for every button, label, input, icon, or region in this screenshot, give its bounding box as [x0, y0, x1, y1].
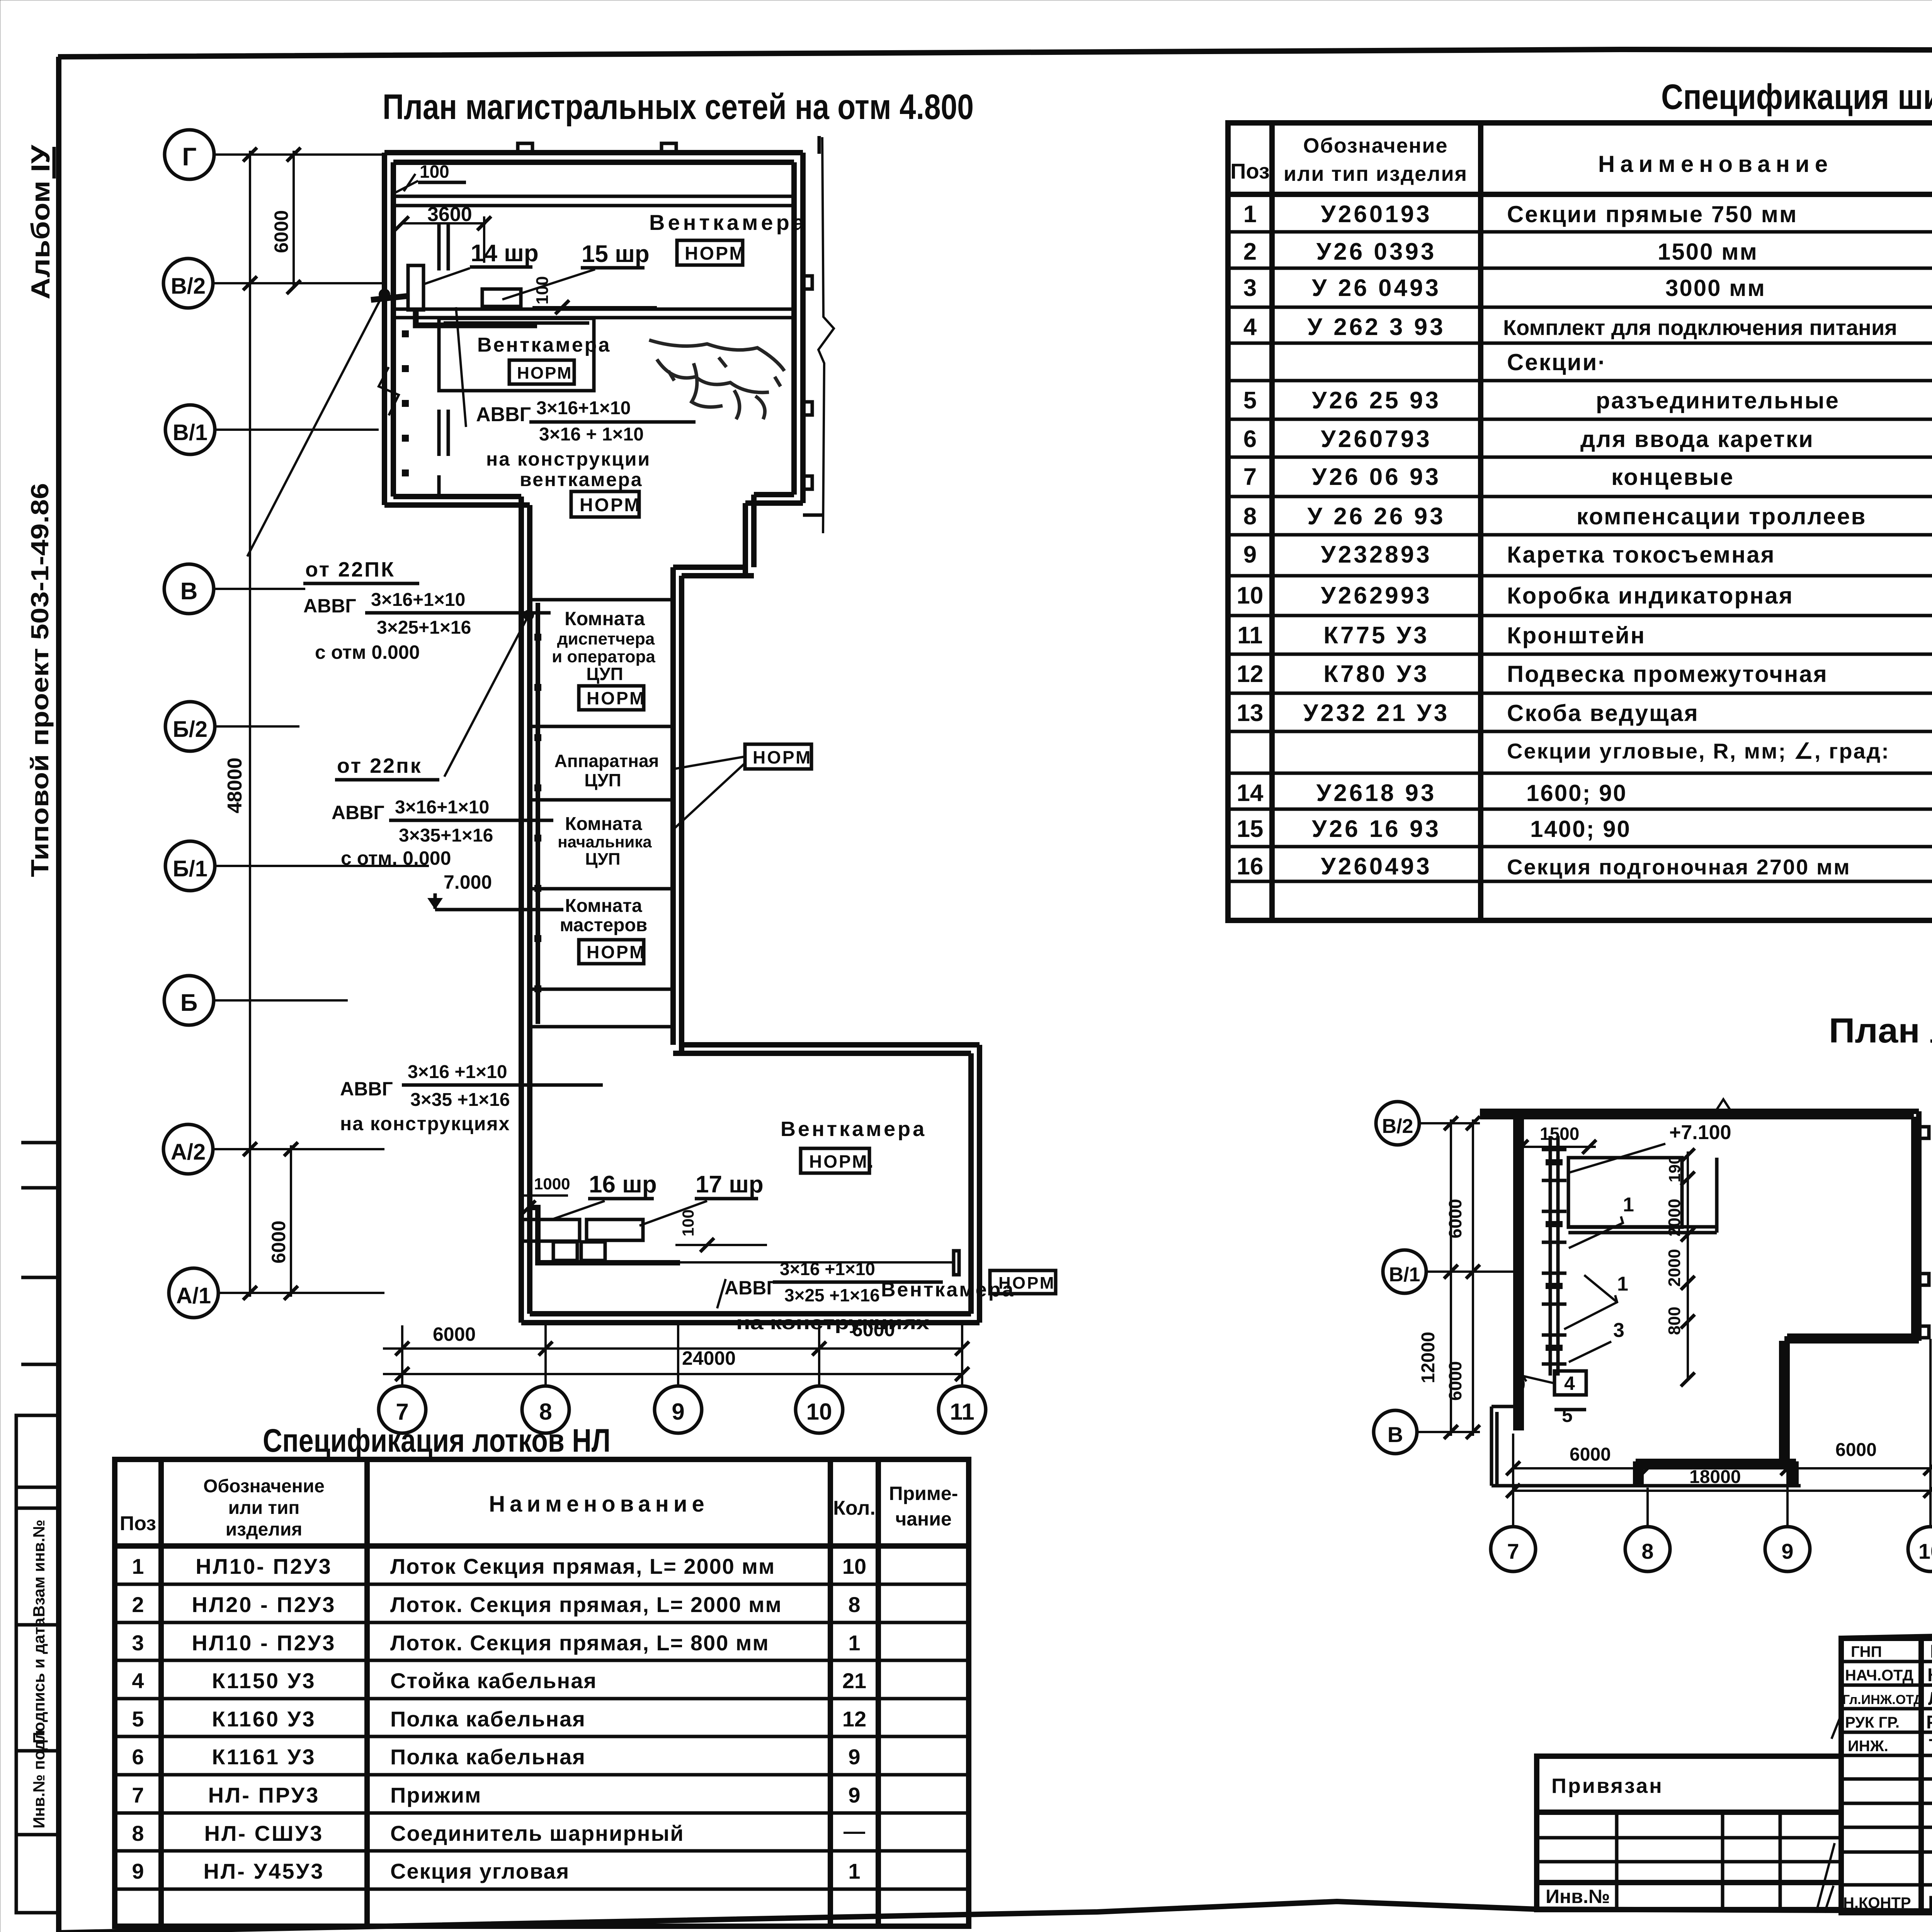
svg-text:НОРМ: НОРМ — [587, 942, 646, 962]
sheet frame top border — [58, 49, 1932, 57]
bottom block walls — [521, 1045, 980, 1323]
svg-text:2: 2 — [1243, 238, 1257, 265]
small plan A: vertical dim 6000/6000 — [1472, 1119, 1474, 1436]
small plan A: axis stems — [1513, 1339, 1930, 1526]
partition stubs below band — [439, 224, 448, 497]
svg-text:Секции·: Секции· — [1507, 349, 1607, 375]
svg-text:План магистральных сетей на: План магистральных сетей на отм 4.800 — [383, 87, 974, 127]
bottom dim upper line — [383, 1347, 962, 1350]
grid circle 9 — [655, 1386, 702, 1433]
svg-text:13: 13 — [1237, 700, 1264, 726]
svg-text:У26 25 93: У26 25 93 — [1312, 387, 1441, 414]
grid circle А/1 — [169, 1268, 218, 1318]
svg-text:У26 06 93: У26 06 93 — [1312, 464, 1441, 490]
svg-text:14: 14 — [1237, 780, 1264, 806]
svg-text:РУК ГР.: РУК ГР. — [1845, 1714, 1900, 1731]
svg-text:Комната: Комната — [565, 814, 642, 834]
small plan A: cable tray vertical ladder — [1550, 1136, 1558, 1376]
svg-text:1: 1 — [1617, 1273, 1628, 1295]
small plan A: grid circle 10 — [1908, 1527, 1932, 1571]
room label Комната начальника ЦУП — [558, 814, 652, 869]
small plan A: grid circle В/2 — [1376, 1102, 1419, 1145]
svg-text:Поз: Поз — [1230, 159, 1270, 183]
wall break mark left — [379, 367, 399, 415]
svg-text:3×16 +1×10: 3×16 +1×10 — [780, 1259, 875, 1279]
svg-text:разъединительные: разъединительные — [1596, 388, 1840, 413]
svg-text:5: 5 — [132, 1707, 144, 1731]
svg-text:100: 100 — [420, 162, 449, 182]
svg-text:48000: 48000 — [224, 757, 246, 813]
svg-text:1600; 90: 1600; 90 — [1526, 780, 1627, 806]
svg-text:Венткамера: Венткамера — [781, 1117, 927, 1141]
svg-text:6000: 6000 — [268, 1221, 289, 1264]
svg-text:11: 11 — [1237, 622, 1263, 649]
svg-text:Приме-: Приме- — [889, 1483, 958, 1504]
svg-text:21: 21 — [842, 1668, 866, 1693]
svg-text:—: — — [844, 1819, 865, 1843]
riser junction dots — [534, 634, 541, 992]
leader 15шр — [502, 269, 595, 299]
svg-text:АВВГ: АВВГ — [476, 403, 531, 426]
svg-text:НАЧ.ОТД: НАЧ.ОТД — [1845, 1667, 1913, 1684]
svg-text:9: 9 — [672, 1399, 684, 1425]
svg-text:Б/1: Б/1 — [173, 856, 207, 881]
svg-text:ИНЖ.: ИНЖ. — [1848, 1738, 1888, 1755]
grid circle 11 — [939, 1386, 986, 1433]
cable junction dots left wall — [402, 330, 409, 476]
label block АВВГ на конструкциях (left mid) — [340, 1062, 603, 1134]
svg-text:12000: 12000 — [1418, 1332, 1439, 1383]
svg-text:Обозначение: Обозначение — [1303, 134, 1448, 157]
svg-text:11: 11 — [950, 1399, 974, 1425]
svg-text:У2618 93: У2618 93 — [1316, 780, 1437, 806]
НОРМ box bottom right — [990, 1270, 1056, 1294]
grid circle 7 — [379, 1386, 426, 1433]
svg-text:8: 8 — [1641, 1539, 1653, 1563]
svg-text:2000: 2000 — [1665, 1249, 1684, 1287]
svg-text:3×25 +1×16: 3×25 +1×16 — [784, 1285, 880, 1305]
svg-text:7: 7 — [1243, 464, 1257, 490]
lotki table names — [390, 1554, 782, 1883]
svg-text:Подвеска промежуточная: Подвеска промежуточная — [1507, 661, 1828, 687]
svg-text:Секции прямые 750 мм: Секции прямые 750 мм — [1507, 201, 1798, 227]
svg-text:АВВГ: АВВГ — [303, 595, 356, 617]
svg-text:К1160 У3: К1160 У3 — [212, 1707, 316, 1731]
shkaf 15 symbol — [482, 289, 521, 306]
svg-text:Ланкин: Ланкин — [1928, 1689, 1932, 1709]
svg-text:190: 190 — [1665, 1155, 1684, 1182]
svg-text:7: 7 — [132, 1783, 144, 1807]
small plan A: vertical dim chain — [1687, 1151, 1689, 1379]
small plan A: grid circle В — [1374, 1410, 1417, 1454]
svg-text:Юрин: Юрин — [1930, 1641, 1932, 1662]
top block interior band wall — [393, 195, 794, 198]
spec table pos+code columns — [1237, 201, 1450, 880]
svg-text:Кол.: Кол. — [833, 1497, 876, 1519]
grid circle 10 — [796, 1386, 843, 1433]
svg-text:6000: 6000 — [852, 1319, 895, 1340]
svg-text:3×16+1×10: 3×16+1×10 — [371, 590, 465, 610]
svg-text:Лоток. Секция прямая, L= 200: Лоток. Секция прямая, L= 2000 мм — [390, 1592, 782, 1617]
svg-text:7.000: 7.000 — [444, 871, 492, 893]
long leader from от22ПК to wall — [247, 297, 382, 556]
svg-text:Спецификация шинопроводов: Спецификация шинопроводов ШТА 75 — [1661, 77, 1932, 117]
svg-text:2: 2 — [132, 1592, 144, 1617]
room label Аппаратная ЦУП — [554, 751, 659, 790]
margin stamp boxes column — [16, 1415, 58, 1913]
svg-text:24000: 24000 — [682, 1347, 736, 1369]
svg-text:6000: 6000 — [1570, 1444, 1611, 1465]
leader 14шр — [424, 268, 470, 284]
svg-text:Полка кабельная: Полка кабельная — [390, 1745, 586, 1769]
svg-text:венткамера: венткамера — [520, 469, 643, 490]
svg-text:Обозначение: Обозначение — [203, 1476, 325, 1497]
svg-text:В: В — [1388, 1422, 1403, 1447]
svg-text:Подпись и дата: Подпись и дата — [30, 1617, 48, 1743]
shkaf 17 symbol — [587, 1219, 643, 1240]
grid circle А/2 — [163, 1124, 213, 1174]
svg-text:6000: 6000 — [1445, 1361, 1465, 1401]
svg-text:4: 4 — [132, 1668, 144, 1693]
svg-text:НЛ- У45У3: НЛ- У45У3 — [203, 1859, 324, 1883]
svg-text:3600: 3600 — [427, 203, 472, 226]
svg-text:10: 10 — [842, 1554, 866, 1578]
wall break top — [1716, 1099, 1731, 1111]
lotki table outer box — [115, 1459, 969, 1926]
svg-text:Стойка кабельная: Стойка кабельная — [390, 1668, 597, 1693]
svg-text:У260193: У260193 — [1321, 201, 1432, 228]
privyazan box — [1537, 1756, 1841, 1910]
svg-text:Соединитель шарнирный: Соединитель шарнирный — [390, 1821, 684, 1845]
small plan A: grid circle В/1 — [1383, 1250, 1426, 1293]
svg-text:1: 1 — [848, 1631, 860, 1655]
grid line Г — [214, 153, 384, 156]
svg-text:ГНП: ГНП — [1851, 1643, 1882, 1660]
svg-text:4: 4 — [1564, 1372, 1575, 1394]
НОРМ box (top plan bottom) — [571, 492, 641, 517]
svg-text:НОРМ: НОРМ — [753, 747, 812, 767]
spec table STA75 outer box — [1228, 123, 1932, 920]
svg-text:НОРМ.: НОРМ. — [517, 364, 578, 383]
svg-text:с отм. 0.000: с отм. 0.000 — [341, 847, 451, 869]
svg-text:9: 9 — [132, 1859, 144, 1883]
title block top line — [1841, 1628, 1932, 1638]
svg-text:Романенко: Романенко — [1926, 1712, 1932, 1733]
small plan A walls: left — [1516, 1117, 1521, 1430]
svg-text:Типовой проект 503-1-49.86: Типовой проект 503-1-49.86 — [26, 483, 54, 877]
svg-text:НЛ10 - П2У3: НЛ10 - П2У3 — [192, 1631, 336, 1655]
svg-text:Поз: Поз — [120, 1512, 156, 1535]
slash marks — [1816, 1712, 1842, 1913]
svg-text:6000: 6000 — [270, 210, 292, 253]
svg-text:3: 3 — [1613, 1319, 1624, 1342]
svg-text:5: 5 — [1562, 1405, 1573, 1426]
svg-text:на конструкции: на конструкции — [486, 448, 651, 470]
svg-text:от 22пк: от 22пк — [337, 754, 422, 777]
label block от 22ПК (upper) — [303, 558, 551, 663]
lotki table headers — [120, 1476, 958, 1540]
svg-text:9: 9 — [848, 1745, 860, 1769]
svg-text:У260493: У260493 — [1321, 853, 1432, 880]
svg-text:1: 1 — [848, 1859, 860, 1883]
lotki table row lines — [115, 1584, 969, 1889]
label на конструкции венткамера — [486, 448, 651, 490]
svg-text:К1150 У3: К1150 У3 — [212, 1668, 316, 1693]
tray line to right wall — [680, 1261, 954, 1264]
heavy cable run top — [371, 296, 537, 325]
svg-text:3000 мм: 3000 мм — [1665, 275, 1766, 301]
svg-text:В: В — [180, 578, 198, 605]
svg-text:У262993: У262993 — [1321, 582, 1432, 609]
grid line В/1 — [215, 429, 379, 431]
svg-text:диспетчера: диспетчера — [557, 629, 655, 648]
small plan A: ground line and portal — [1492, 1484, 1801, 1488]
grid line Б/1 — [215, 865, 429, 867]
svg-text:Г: Г — [182, 142, 196, 171]
svg-text:3×35+1×16: 3×35+1×16 — [399, 825, 493, 846]
svg-text:НЛ20 - П2У3: НЛ20 - П2У3 — [192, 1592, 336, 1617]
small plan A: grid circle 9 — [1765, 1527, 1810, 1571]
grid line Б/2 — [215, 725, 299, 728]
lower 6000 dim line — [290, 1145, 292, 1297]
НОРМ box bottom room — [801, 1148, 875, 1173]
column stubs on top wall — [518, 143, 532, 153]
svg-text:План лотков на отм. 4 800: План лотков на отм. 4 800 — [1829, 1012, 1932, 1050]
svg-text:ЦУП: ЦУП — [585, 850, 620, 869]
svg-text:6: 6 — [1243, 426, 1257, 452]
svg-text:АВВГ: АВВГ — [340, 1078, 393, 1100]
shkaf 14 symbol — [408, 265, 423, 310]
top block interior band wall 2 — [393, 308, 794, 311]
staff roles — [1842, 1643, 1923, 1912]
svg-text:Скоба ведущая: Скоба ведущая — [1507, 700, 1699, 726]
svg-text:15: 15 — [1237, 816, 1264, 842]
svg-text:Взам инв.№: Взам инв.№ — [30, 1520, 48, 1617]
svg-text:Наименование: Наименование — [1598, 151, 1833, 177]
spec table name column — [1503, 201, 1897, 879]
svg-text:7: 7 — [396, 1399, 408, 1425]
svg-text:Есина: Есина — [1928, 1893, 1932, 1913]
bottom dim lower line 24000 — [383, 1373, 962, 1375]
grid circle Б/1 — [165, 841, 215, 891]
elevation mark 7.000 — [427, 871, 563, 910]
grid circle Г — [165, 130, 214, 179]
svg-text:1500 мм: 1500 мм — [1658, 239, 1758, 265]
svg-text:1500: 1500 — [1540, 1124, 1579, 1144]
svg-text:ЦУП: ЦУП — [584, 770, 621, 790]
svg-text:НОРМ: НОРМ — [580, 495, 641, 515]
svg-text:Секция угловая: Секция угловая — [390, 1859, 570, 1883]
svg-text:Венткамера: Венткамера — [881, 1279, 1015, 1301]
small plan A walls: bottom right step — [1782, 1336, 1919, 1461]
dim 3600 — [402, 222, 486, 224]
svg-text:4: 4 — [1243, 314, 1257, 340]
dim ticks on 48000 line — [243, 148, 257, 1300]
svg-text:100: 100 — [679, 1209, 697, 1236]
leader from vent2 to 15шр area — [456, 307, 466, 427]
svg-text:Инв.№: Инв.№ — [1546, 1886, 1610, 1907]
svg-text:У260793: У260793 — [1321, 426, 1432, 452]
svg-text:17 шр: 17 шр — [696, 1171, 764, 1198]
small plan A: vertical dim 12000 — [1450, 1119, 1452, 1436]
svg-text:6000: 6000 — [1835, 1440, 1877, 1460]
svg-text:начальника: начальника — [558, 833, 652, 851]
svg-text:А/1: А/1 — [176, 1283, 211, 1308]
svg-text:и оператора: и оператора — [552, 647, 655, 666]
svg-text:У26 0393: У26 0393 — [1316, 238, 1437, 265]
svg-text:Кронштейн: Кронштейн — [1507, 622, 1646, 648]
small plan A: grid circle 8 — [1625, 1527, 1670, 1571]
lotki table pos/code/qty — [132, 1554, 866, 1883]
spec table main column lines — [1269, 123, 1275, 920]
building top block outer walls — [384, 153, 803, 505]
svg-text:Венткамера: Венткамера — [649, 210, 808, 235]
leaders 16/17 шр — [552, 1201, 605, 1219]
grid circle 8 — [522, 1386, 569, 1433]
svg-text:с отм 0.000: с отм 0.000 — [315, 641, 420, 663]
svg-text:8: 8 — [1243, 503, 1257, 530]
svg-text:чание: чание — [895, 1508, 952, 1530]
svg-text:или тип: или тип — [228, 1498, 300, 1518]
НОРМ box top — [677, 240, 746, 265]
stem riser cable — [536, 603, 540, 1024]
svg-text:А/2: А/2 — [171, 1139, 206, 1165]
room label Комната мастеров — [560, 896, 648, 935]
svg-text:3: 3 — [132, 1631, 144, 1655]
lotki table header bottom — [115, 1543, 969, 1549]
svg-text:У 262 3 93: У 262 3 93 — [1307, 314, 1445, 340]
svg-text:Каретка токосъемная: Каретка токосъемная — [1507, 542, 1776, 568]
spec table header texts — [1230, 131, 1932, 190]
margin tick lines — [21, 1141, 58, 1145]
svg-text:3: 3 — [1243, 275, 1257, 301]
svg-text:3×35 +1×16: 3×35 +1×16 — [410, 1090, 510, 1110]
svg-text:Комната: Комната — [565, 896, 642, 916]
svg-text:Секции угловые, R, мм; ∠, гра: Секции угловые, R, мм; ∠, град: — [1507, 739, 1890, 763]
svg-text:100: 100 — [533, 276, 552, 304]
svg-text:Тондзе: Тондзе — [1929, 1736, 1932, 1756]
label block АВВГ на конструкциях (bottom) — [717, 1259, 943, 1333]
svg-text:9: 9 — [848, 1783, 860, 1807]
small plan A walls: right — [1914, 1111, 1919, 1341]
svg-text:У232 21 У3: У232 21 У3 — [1303, 700, 1449, 726]
svg-text:1: 1 — [132, 1554, 144, 1578]
scan smudge noise — [649, 340, 784, 419]
svg-text:мастеров: мастеров — [560, 915, 648, 935]
label block от 22пк (lower) — [332, 754, 553, 869]
room label Комната диспетчера — [552, 608, 655, 684]
svg-text:8: 8 — [848, 1592, 860, 1617]
svg-text:В/1: В/1 — [173, 420, 207, 445]
vertical dimension line 48000 — [249, 151, 251, 1297]
grid circle В/2 — [163, 259, 213, 308]
svg-text:НЛ- СШУ3: НЛ- СШУ3 — [204, 1821, 324, 1845]
svg-text:К780 У3: К780 У3 — [1323, 661, 1429, 687]
grid line В — [214, 588, 305, 590]
svg-text:Секция подгоночная 2700 мм: Секция подгоночная 2700 мм — [1507, 855, 1851, 879]
svg-text:6000: 6000 — [1445, 1199, 1465, 1238]
svg-text:12: 12 — [842, 1707, 866, 1731]
НОРМ. box vent2 — [509, 360, 578, 384]
svg-text:концевые: концевые — [1611, 464, 1734, 490]
svg-text:3×16 +1×10: 3×16 +1×10 — [408, 1062, 507, 1082]
svg-text:+7.100: +7.100 — [1669, 1121, 1731, 1144]
grid circle Б/2 — [165, 702, 215, 751]
svg-text:В/2: В/2 — [171, 274, 206, 299]
svg-text:16 шр: 16 шр — [589, 1171, 657, 1198]
svg-text:10: 10 — [806, 1399, 832, 1425]
staff table — [1841, 1638, 1932, 1913]
grid circle В — [164, 564, 214, 614]
svg-text:изделия: изделия — [226, 1519, 303, 1540]
sheet frame bottom border — [59, 1901, 1932, 1932]
svg-text:Прижим: Прижим — [390, 1783, 481, 1807]
svg-text:3×16+1×10: 3×16+1×10 — [395, 797, 489, 818]
svg-text:У232893: У232893 — [1321, 541, 1432, 568]
svg-text:1: 1 — [1623, 1194, 1634, 1216]
small plan A: bottom dim row — [1513, 1467, 1930, 1469]
svg-text:НЛ10- П2У3: НЛ10- П2У3 — [196, 1554, 332, 1578]
svg-text:У 26 26 93: У 26 26 93 — [1307, 503, 1445, 530]
svg-text:У 26 0493: У 26 0493 — [1312, 275, 1441, 301]
axis stems to circles — [402, 1325, 962, 1385]
staff names — [1926, 1641, 1932, 1913]
svg-text:9: 9 — [1781, 1539, 1793, 1563]
svg-text:Калганов: Калганов — [1927, 1665, 1932, 1685]
svg-text:Гл.ИНЖ.ОТД: Гл.ИНЖ.ОТД — [1842, 1692, 1923, 1707]
svg-text:АВВГ: АВВГ — [332, 802, 384, 823]
svg-text:ЦУП: ЦУП — [586, 664, 623, 684]
svg-text:15 шр: 15 шр — [582, 241, 650, 267]
shkaf 16 symbol — [522, 1219, 580, 1241]
svg-text:НЛ- ПРУ3: НЛ- ПРУ3 — [208, 1783, 320, 1807]
НОРМ box дисп — [579, 686, 646, 710]
right wall tabs — [1919, 1127, 1929, 1138]
svg-text:18000: 18000 — [1689, 1467, 1741, 1487]
lotki table column lines — [158, 1459, 164, 1926]
label АВВГ fraction (top plan) — [476, 398, 696, 445]
svg-text:800: 800 — [1665, 1307, 1684, 1335]
svg-text:1400; 90: 1400; 90 — [1530, 816, 1631, 842]
svg-text:10: 10 — [1237, 582, 1264, 609]
svg-text:Наименование: Наименование — [489, 1492, 709, 1517]
svg-text:14 шр: 14 шр — [471, 240, 539, 267]
grid circle В/1 — [165, 405, 215, 454]
column stubs on right wall — [803, 276, 812, 289]
svg-text:9: 9 — [1243, 541, 1257, 568]
svg-text:7: 7 — [1507, 1539, 1519, 1563]
svg-text:от 22ПК: от 22ПК — [305, 558, 395, 581]
heavy cable run bottom — [530, 1207, 680, 1263]
svg-text:Коробка индикаторная: Коробка индикаторная — [1507, 583, 1794, 609]
svg-text:8: 8 — [539, 1399, 552, 1425]
junction dot — [379, 289, 390, 300]
svg-text:НОРМ: НОРМ — [685, 243, 746, 264]
svg-text:Альбом ІУ: Альбом ІУ — [26, 145, 55, 299]
svg-text:5: 5 — [1243, 387, 1257, 414]
svg-text:Аппаратная: Аппаратная — [554, 751, 659, 771]
svg-text:1: 1 — [1243, 201, 1257, 228]
step line right — [803, 514, 822, 517]
grid line В/2 — [213, 282, 384, 284]
svg-text:В/2: В/2 — [1382, 1115, 1413, 1138]
svg-text:У26 16 93: У26 16 93 — [1312, 816, 1441, 842]
svg-text:6000: 6000 — [433, 1323, 476, 1345]
grid line А/1 — [218, 1292, 384, 1294]
underline under IV — [53, 147, 56, 179]
svg-text:Б: Б — [180, 990, 198, 1016]
svg-text:12: 12 — [1237, 661, 1264, 687]
